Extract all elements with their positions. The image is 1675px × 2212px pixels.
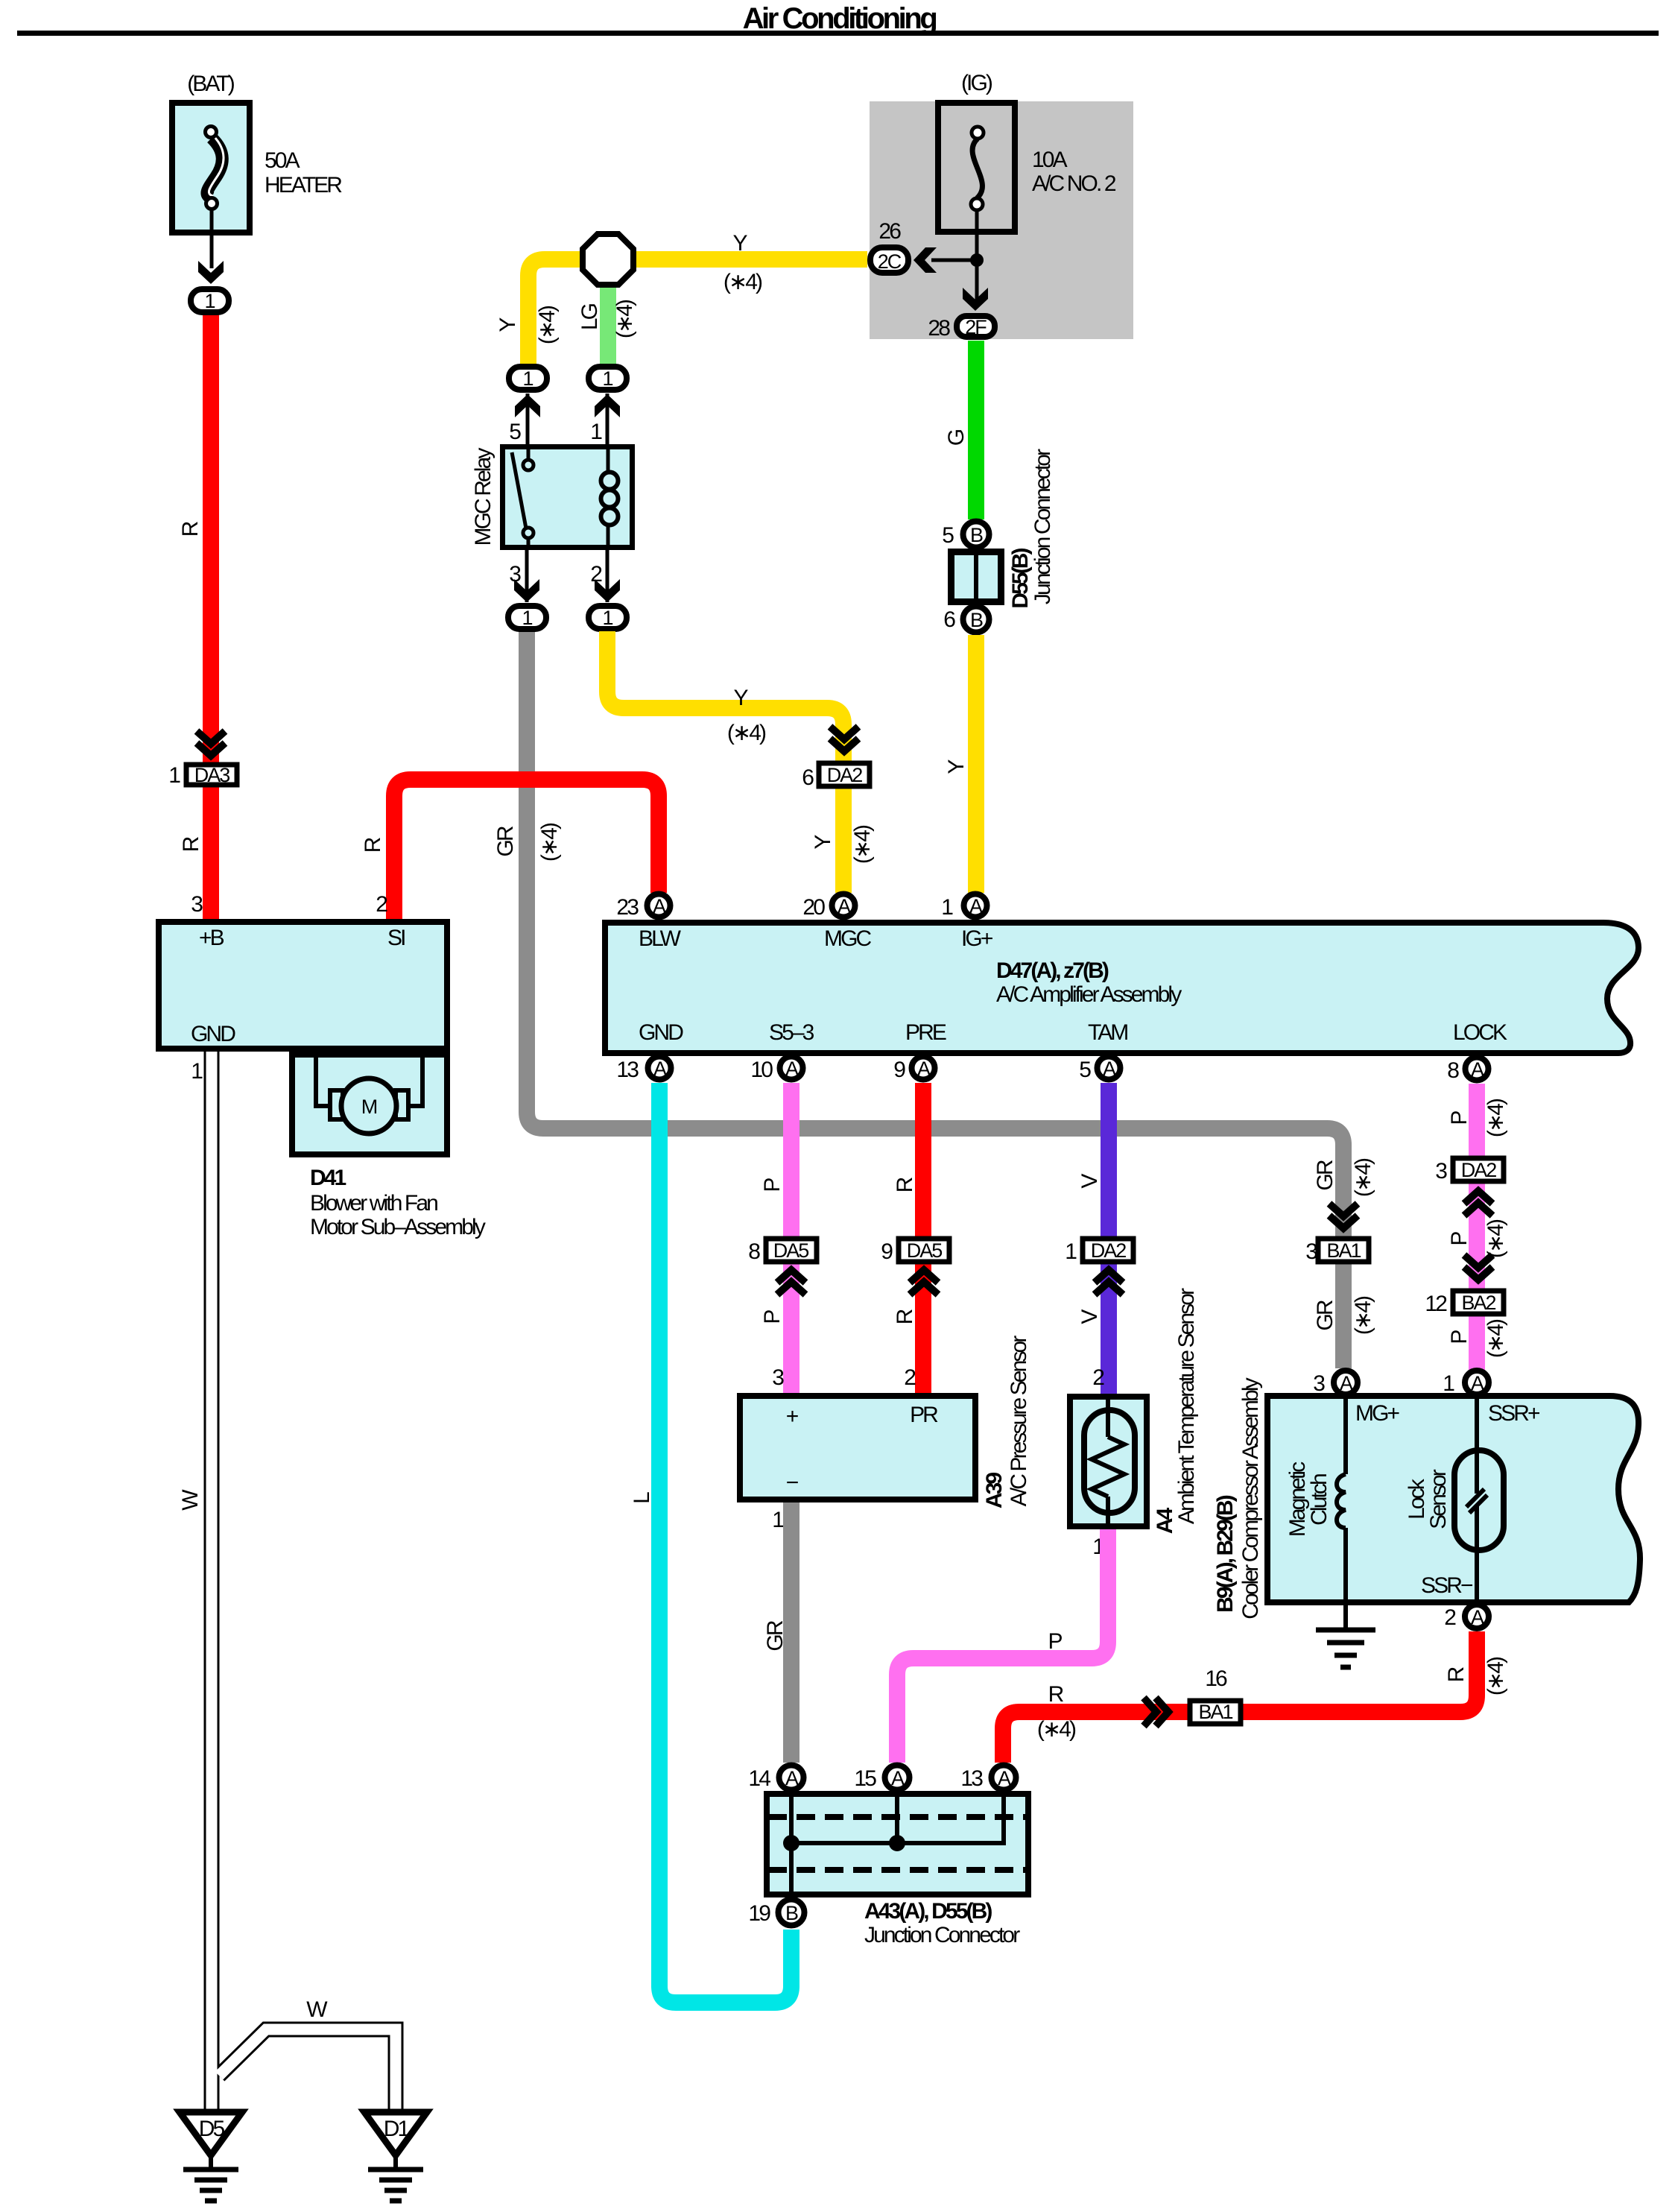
svg-text:DA2: DA2 bbox=[827, 764, 863, 786]
wire fuse lead bbox=[210, 209, 214, 268]
pin 19 B bbox=[748, 1900, 804, 1927]
chevrons below DA2 (LOCK, up) bbox=[1464, 1191, 1492, 1216]
wire LG(*4) from octagon to relay pin 1 connector (light green) bbox=[600, 276, 616, 364]
svg-text:A: A bbox=[917, 1058, 931, 1080]
svg-text:3: 3 bbox=[509, 562, 521, 587]
wire relay pin 3 lead bbox=[525, 550, 529, 602]
ground D1 bbox=[364, 2112, 427, 2201]
svg-text:R: R bbox=[1444, 1666, 1469, 1682]
pin 10 A (S5-3) bbox=[750, 1057, 802, 1083]
svg-text:A/C Pressure Sensor: A/C Pressure Sensor bbox=[1007, 1336, 1031, 1507]
svg-text:10: 10 bbox=[750, 1058, 773, 1082]
ground D5 bbox=[180, 2112, 242, 2201]
svg-text:5: 5 bbox=[509, 420, 521, 444]
svg-text:(∗4): (∗4) bbox=[1484, 1219, 1508, 1258]
svg-text:A/C Amplifier Assembly: A/C Amplifier Assembly bbox=[996, 982, 1182, 1007]
svg-text:DA5: DA5 bbox=[773, 1239, 809, 1262]
splice DA2 pin 1 bbox=[1065, 1239, 1133, 1264]
svg-text:5: 5 bbox=[942, 523, 954, 548]
svg-text:3: 3 bbox=[1435, 1159, 1447, 1184]
svg-text:1: 1 bbox=[602, 367, 612, 390]
svg-text:D41: D41 bbox=[310, 1166, 346, 1190]
pin 1 A (SSR+) bbox=[1443, 1371, 1489, 1396]
chevrons below DA5 (S5-3) bbox=[777, 1270, 805, 1295]
svg-text:(∗4): (∗4) bbox=[850, 825, 875, 864]
svg-text:A: A bbox=[1471, 1606, 1484, 1628]
svg-text:IG+: IG+ bbox=[961, 926, 993, 951]
svg-text:GND: GND bbox=[639, 1020, 683, 1045]
chevrons into DA3 bbox=[197, 731, 225, 756]
svg-text:D5: D5 bbox=[199, 2117, 225, 2141]
svg-text:3: 3 bbox=[191, 892, 203, 917]
svg-text:13: 13 bbox=[616, 1058, 639, 1082]
blower controller box (+B / SI / GND) bbox=[159, 922, 447, 1049]
wire V from TAM pin 5 to A4 (violet) bbox=[1101, 1083, 1117, 1394]
svg-text:6: 6 bbox=[802, 765, 814, 790]
pin 9 A (PRE) bbox=[893, 1057, 934, 1083]
svg-text:BLW: BLW bbox=[639, 926, 682, 951]
svg-text:TAM: TAM bbox=[1088, 1020, 1127, 1045]
svg-text:BA1: BA1 bbox=[1326, 1239, 1361, 1262]
svg-text:16: 16 bbox=[1205, 1666, 1227, 1691]
svg-text:(∗4): (∗4) bbox=[1484, 1657, 1508, 1696]
svg-text:Y: Y bbox=[944, 759, 969, 774]
svg-text:−: − bbox=[786, 1470, 799, 1495]
svg-text:V: V bbox=[1077, 1174, 1102, 1189]
svg-text:2F: 2F bbox=[965, 316, 987, 338]
svg-text:LG: LG bbox=[577, 303, 602, 330]
wire Y(*4) from octagon to 2C (yellow) bbox=[618, 251, 867, 268]
svg-text:1: 1 bbox=[204, 290, 215, 312]
svg-text:5: 5 bbox=[1079, 1058, 1091, 1082]
svg-text:(∗4): (∗4) bbox=[1484, 1319, 1508, 1358]
svg-text:A43(A), D55(B): A43(A), D55(B) bbox=[864, 1899, 992, 1924]
svg-text:GR: GR bbox=[493, 826, 518, 856]
splice DA5 pin 9 bbox=[881, 1239, 949, 1264]
svg-text:1: 1 bbox=[522, 607, 532, 629]
motor D41 Blower with Fan Motor Sub-Assembly bbox=[292, 1055, 486, 1239]
svg-text:Air Conditioning: Air Conditioning bbox=[743, 2, 937, 35]
svg-text:2: 2 bbox=[376, 892, 387, 917]
ground (magnetic clutch) bbox=[1316, 1602, 1375, 1667]
svg-text:9: 9 bbox=[881, 1239, 893, 1264]
svg-text:Junction Connector: Junction Connector bbox=[1030, 449, 1055, 604]
svg-text:HEATER: HEATER bbox=[265, 173, 342, 197]
chevrons below DA5 (PRE) bbox=[910, 1270, 938, 1295]
svg-text:P: P bbox=[1447, 1111, 1472, 1125]
sensor A39 A/C Pressure Sensor bbox=[740, 1336, 1031, 1508]
pin 13 A (GND) bbox=[616, 1057, 671, 1083]
svg-text:A: A bbox=[1471, 1372, 1484, 1394]
wire Y from 6B to IG+ pin 1 (yellow) bbox=[968, 635, 984, 893]
connector 2F bbox=[957, 316, 995, 338]
svg-text:Clutch: Clutch bbox=[1307, 1474, 1332, 1526]
svg-text:D1: D1 bbox=[384, 2117, 410, 2141]
svg-text:DA2: DA2 bbox=[1461, 1159, 1497, 1181]
wire relay pin 2 lead bbox=[606, 550, 609, 602]
svg-text:2: 2 bbox=[1092, 1365, 1104, 1390]
wire W from GND to grounds (white wire, outlined) bbox=[212, 1052, 396, 2114]
svg-text:(∗4): (∗4) bbox=[612, 300, 637, 338]
wire relay pin 5 lead bbox=[526, 394, 530, 446]
svg-text:MGC: MGC bbox=[824, 926, 872, 951]
svg-text:A: A bbox=[969, 895, 983, 917]
svg-text:A: A bbox=[1340, 1372, 1353, 1394]
splice DA2 pin 3 (LOCK) bbox=[1435, 1158, 1504, 1184]
svg-text:(∗4): (∗4) bbox=[537, 823, 562, 862]
wire GR(*4) from relay pin 3 to BA1 (gray) bbox=[527, 631, 1343, 1368]
svg-text:BA2: BA2 bbox=[1461, 1292, 1495, 1314]
svg-text:B9(A), B29(B): B9(A), B29(B) bbox=[1213, 1495, 1238, 1613]
connector 1 (relay pin 2 bottom) bbox=[589, 606, 627, 629]
wire R from fuse 1 to +B (red) bbox=[203, 314, 219, 919]
svg-text:(∗4): (∗4) bbox=[1037, 1717, 1076, 1742]
splice octagon bbox=[583, 234, 633, 285]
svg-text:8: 8 bbox=[1447, 1058, 1459, 1083]
svg-text:R: R bbox=[893, 1309, 917, 1324]
svg-text:50A: 50A bbox=[265, 148, 300, 173]
svg-text:3: 3 bbox=[1313, 1371, 1325, 1396]
svg-text:GR: GR bbox=[763, 1620, 788, 1651]
svg-text:+: + bbox=[786, 1404, 799, 1429]
svg-text:B: B bbox=[970, 524, 983, 546]
splice DA5 pin 8 bbox=[748, 1239, 817, 1264]
wire L from GND pin 13 to junction 19B (cyan) bbox=[659, 1083, 791, 2003]
svg-text:Motor Sub–Assembly: Motor Sub–Assembly bbox=[310, 1215, 486, 1239]
svg-text:1: 1 bbox=[191, 1059, 203, 1084]
wire Y(*4) from octagon to relay pin 5 connector (yellow) bbox=[528, 259, 596, 364]
fuse 10A A/C NO.2 connector 2C bbox=[870, 247, 908, 273]
svg-text:(∗4): (∗4) bbox=[1351, 1296, 1375, 1335]
svg-text:A: A bbox=[891, 1767, 905, 1789]
svg-text:R: R bbox=[361, 837, 385, 853]
svg-text:(BAT): (BAT) bbox=[187, 72, 235, 96]
pin 2 A (SSR-) bbox=[1444, 1605, 1489, 1630]
svg-text:A39: A39 bbox=[982, 1473, 1007, 1509]
IG fuse block (gray) bbox=[870, 71, 1133, 341]
svg-text:Y: Y bbox=[733, 686, 748, 710]
svg-text:1: 1 bbox=[602, 607, 612, 629]
svg-text:DA5: DA5 bbox=[907, 1239, 943, 1262]
svg-text:10A: 10A bbox=[1032, 148, 1068, 172]
svg-text:2: 2 bbox=[904, 1365, 916, 1390]
svg-text:19: 19 bbox=[748, 1901, 770, 1926]
svg-text:1: 1 bbox=[941, 895, 953, 920]
svg-text:GR: GR bbox=[1313, 1300, 1337, 1330]
connector 1 (BAT branch) bbox=[191, 289, 229, 312]
svg-text:23: 23 bbox=[616, 895, 639, 920]
svg-text:A: A bbox=[653, 1058, 667, 1080]
svg-text:PRE: PRE bbox=[905, 1020, 946, 1045]
arrow into connector 1 bbox=[198, 261, 224, 284]
svg-text:P: P bbox=[1447, 1232, 1472, 1246]
svg-text:S5–3: S5–3 bbox=[769, 1020, 814, 1045]
svg-text:R: R bbox=[178, 521, 203, 537]
chevrons into BA1 (right) bbox=[1144, 1698, 1168, 1726]
splice BA2 pin 12 bbox=[1425, 1291, 1504, 1316]
svg-text:(∗4): (∗4) bbox=[535, 306, 560, 344]
svg-text:A/C NO. 2: A/C NO. 2 bbox=[1032, 171, 1116, 196]
wire relay pin 1 lead bbox=[606, 394, 609, 446]
arrow up to connector (pin 5) bbox=[515, 394, 540, 417]
svg-text:DA3: DA3 bbox=[194, 764, 230, 786]
wire R(*4) from SSR- to junction 13A via BA1 (red) bbox=[1003, 1631, 1477, 1763]
junction connector A43(A), D55(B) bbox=[767, 1791, 1028, 1947]
svg-text:Blower with Fan: Blower with Fan bbox=[310, 1191, 437, 1216]
svg-text:3: 3 bbox=[772, 1365, 784, 1390]
wire Y(*4) from relay pin 2 to MGC pin 20 (yellow) bbox=[607, 631, 843, 893]
splice DA3 pin 1 bbox=[168, 763, 237, 788]
svg-text:Y: Y bbox=[811, 835, 835, 850]
pin 5 A (TAM) bbox=[1079, 1057, 1120, 1083]
svg-text:13: 13 bbox=[960, 1766, 983, 1791]
wire G from 2F to junction 5B (green) bbox=[968, 341, 984, 519]
pin 14 A bbox=[748, 1766, 803, 1792]
svg-text:(∗4): (∗4) bbox=[1351, 1158, 1375, 1197]
svg-text:P: P bbox=[760, 1310, 785, 1324]
compressor B9(A), B29(B) Cooler Compressor Assembly bbox=[1213, 1377, 1640, 1619]
svg-text:M: M bbox=[361, 1096, 377, 1118]
relay MGC Relay bbox=[471, 446, 633, 550]
svg-text:1: 1 bbox=[1065, 1239, 1077, 1264]
svg-text:MG+: MG+ bbox=[1355, 1401, 1400, 1426]
pin 15 A bbox=[854, 1766, 909, 1792]
chevrons below DA2 (TAM) bbox=[1095, 1270, 1123, 1295]
svg-text:GND: GND bbox=[191, 1022, 235, 1046]
svg-text:Ambient Temperature Sensor: Ambient Temperature Sensor bbox=[1174, 1288, 1199, 1524]
svg-text:12: 12 bbox=[1425, 1292, 1447, 1316]
arrow down to connector (pin 3) bbox=[514, 579, 539, 602]
svg-text:MGC Relay: MGC Relay bbox=[471, 448, 495, 546]
svg-text:1: 1 bbox=[522, 367, 533, 390]
svg-text:Y: Y bbox=[732, 231, 747, 256]
svg-text:28: 28 bbox=[928, 316, 950, 341]
svg-text:+B: +B bbox=[199, 926, 224, 950]
pin 1 A (IG+) bbox=[941, 894, 987, 920]
svg-text:W: W bbox=[306, 1997, 328, 2022]
chevrons into BA1 (down) bbox=[1329, 1204, 1358, 1228]
svg-text:D47(A), z7(B): D47(A), z7(B) bbox=[996, 958, 1109, 983]
sensor A4 Ambient Temperature Sensor bbox=[1070, 1288, 1199, 1534]
splice BA1 pin 3 bbox=[1305, 1239, 1369, 1264]
svg-text:P: P bbox=[760, 1178, 785, 1192]
ECU D47(A), z7(B) A/C Amplifier Assembly bbox=[605, 923, 1638, 1053]
svg-text:BA1: BA1 bbox=[1198, 1701, 1232, 1723]
svg-text:A: A bbox=[653, 895, 666, 917]
svg-text:14: 14 bbox=[748, 1766, 770, 1791]
svg-text:B: B bbox=[970, 609, 983, 631]
svg-text:2C: 2C bbox=[878, 250, 902, 273]
svg-text:1: 1 bbox=[590, 420, 602, 444]
svg-text:(∗4): (∗4) bbox=[727, 721, 766, 745]
svg-text:(∗4): (∗4) bbox=[723, 270, 762, 294]
svg-text:8: 8 bbox=[748, 1239, 760, 1264]
svg-text:A: A bbox=[785, 1058, 799, 1080]
pin 23 A (BLW) bbox=[616, 894, 670, 920]
junction pin 6 B bbox=[943, 607, 989, 633]
svg-text:W: W bbox=[178, 1489, 203, 1511]
svg-text:A: A bbox=[998, 1767, 1011, 1789]
connector 1 (relay pin 5 top) bbox=[509, 367, 547, 390]
svg-text:A: A bbox=[1103, 1058, 1116, 1080]
junction pin 5 B bbox=[942, 522, 989, 549]
wire R from PRE pin 9 to A39 PR (red) bbox=[915, 1083, 931, 1393]
svg-text:9: 9 bbox=[893, 1058, 905, 1082]
svg-text:SSR+: SSR+ bbox=[1488, 1401, 1540, 1426]
svg-text:Y: Y bbox=[495, 317, 520, 332]
title rule bbox=[17, 31, 1659, 36]
wire R from SI to BLW pin 23 (red) bbox=[394, 780, 659, 919]
wire P(*4) from LOCK pin 8 to SSR+ (pink) bbox=[1469, 1084, 1485, 1376]
svg-text:(∗4): (∗4) bbox=[1484, 1099, 1508, 1137]
svg-text:V: V bbox=[1077, 1309, 1102, 1324]
svg-text:DA2: DA2 bbox=[1091, 1239, 1127, 1262]
svg-text:GR: GR bbox=[1313, 1160, 1337, 1190]
svg-text:2: 2 bbox=[590, 562, 602, 587]
svg-text:PR: PR bbox=[910, 1403, 938, 1427]
splice BA1 pin 16 bbox=[1190, 1666, 1241, 1724]
svg-text:2: 2 bbox=[1444, 1605, 1456, 1630]
svg-text:A: A bbox=[837, 895, 851, 917]
svg-text:P: P bbox=[1447, 1330, 1472, 1344]
pin 20 A (MGC) bbox=[802, 894, 855, 920]
svg-text:1: 1 bbox=[168, 763, 180, 788]
svg-text:1: 1 bbox=[1443, 1371, 1454, 1396]
svg-text:L: L bbox=[630, 1492, 654, 1504]
svg-text:LOCK: LOCK bbox=[1453, 1020, 1507, 1045]
svg-text:(IG): (IG) bbox=[961, 71, 992, 95]
arrow up to connector (pin 1) bbox=[595, 394, 620, 417]
svg-text:Sensor: Sensor bbox=[1426, 1469, 1451, 1529]
svg-text:26: 26 bbox=[878, 219, 901, 244]
svg-text:B: B bbox=[785, 1902, 798, 1924]
svg-text:R: R bbox=[179, 836, 203, 852]
svg-text:6: 6 bbox=[943, 607, 955, 632]
svg-text:A: A bbox=[785, 1767, 799, 1789]
fuse 50A HEATER bbox=[172, 103, 342, 233]
svg-text:SI: SI bbox=[387, 926, 405, 950]
svg-text:Junction Connector: Junction Connector bbox=[864, 1923, 1020, 1947]
splice DA2 pin 6 bbox=[802, 763, 870, 790]
svg-text:D55(B): D55(B) bbox=[1008, 548, 1033, 608]
svg-text:SSR−: SSR− bbox=[1421, 1573, 1473, 1598]
pin 3 A (MG+) bbox=[1313, 1371, 1358, 1396]
connector 1 (relay pin 1 top) bbox=[589, 367, 627, 390]
svg-text:1: 1 bbox=[772, 1508, 784, 1532]
pin 13 A bbox=[960, 1766, 1016, 1792]
pin 8 A (LOCK) bbox=[1447, 1058, 1488, 1084]
wire P from A4 pin 1 to junction 15A (pink) bbox=[897, 1529, 1108, 1763]
svg-text:A: A bbox=[1471, 1058, 1484, 1081]
svg-text:20: 20 bbox=[802, 895, 825, 920]
svg-text:R: R bbox=[1048, 1682, 1064, 1707]
svg-text:P: P bbox=[1048, 1629, 1062, 1654]
connector 1 (relay pin 3 bottom) bbox=[508, 606, 546, 629]
arrow down to connector (pin 2) bbox=[595, 579, 620, 602]
junction connector D55(B) bbox=[952, 449, 1056, 609]
svg-text:R: R bbox=[893, 1177, 917, 1192]
svg-text:Cooler Compressor Assembly: Cooler Compressor Assembly bbox=[1238, 1377, 1263, 1619]
svg-text:15: 15 bbox=[854, 1766, 876, 1791]
svg-text:G: G bbox=[944, 429, 969, 446]
wire GR from A39 - to junction 14A (gray) bbox=[783, 1502, 799, 1763]
chevrons above BA2 (down) bbox=[1464, 1255, 1492, 1280]
wire P from S5-3 pin 10 to A39 + (pink) bbox=[783, 1083, 799, 1393]
chevrons into DA2 (MGC) bbox=[830, 727, 858, 751]
